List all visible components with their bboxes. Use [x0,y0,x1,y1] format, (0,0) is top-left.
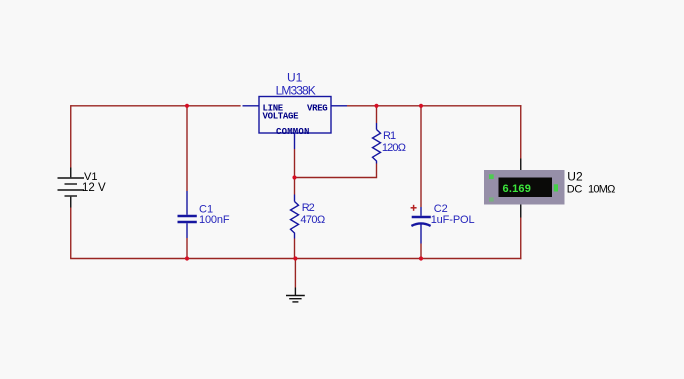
svg-text:U2: U2 [567,170,583,184]
battery V1 [58,168,85,208]
wire U1 COMMON down to adjust node [294,149,296,178]
capacitor C1 [178,191,197,238]
wire C2 top branch [420,106,422,207]
svg-text:VREG: VREG [307,104,327,114]
junction C1 bottom [185,256,189,260]
svg-text:120Ω: 120Ω [382,142,406,154]
wire meter bottom lead (red part) [520,218,522,260]
wire bottom rail [70,258,521,260]
svg-text:470Ω: 470Ω [300,214,325,226]
meter green indicator top-left [489,174,494,179]
svg-text:DC: DC [567,184,583,196]
svg-text:10MΩ: 10MΩ [588,184,615,196]
wire C2 bottom branch [420,244,422,259]
junction R1 top [374,104,378,108]
junction ground node [293,256,297,260]
resistor R2 [291,195,299,239]
wire top rail left (V1 to U1 LINE pin) [71,105,241,107]
svg-text:U1: U1 [287,71,303,85]
junction C2 top [419,104,423,108]
wire ground branch [294,259,296,288]
wire top rail right (U1 VREG to meter drop) [347,105,521,107]
svg-text:VOLTAGE: VOLTAGE [263,112,300,122]
junction C1 top [185,104,189,108]
pin COMMON (bottom) [294,133,296,149]
meter bottom lead (black part) [520,205,522,218]
junction C2 bottom [419,256,423,260]
wire C1 bottom branch [186,238,188,259]
meter body [484,170,565,205]
pin LINE VOLTAGE (left) [243,105,260,107]
wire adjust node down to R2 [294,178,296,195]
meter display [499,178,553,198]
meter green indicator bottom-left [489,197,494,201]
wire left rail upper (top rail down to V1 +) [70,105,72,167]
svg-text:1uF-POL: 1uF-POL [431,214,475,226]
regulator U1 LM338K box [243,97,348,150]
capacitor C2 (polarized) [411,207,430,244]
multimeter U2 [484,159,565,218]
svg-text:LM338K: LM338K [276,84,316,98]
wire R2 bottom branch [294,239,296,259]
resistor R1 [373,123,381,164]
wire left rail lower (V1 - down to bottom rail) [70,208,72,259]
svg-text:12 V: 12 V [82,182,106,194]
wire meter top lead (red part) [520,105,522,158]
ground [286,288,305,302]
wire R1 bottom to adjust node [295,164,377,178]
polarity plus sign of C2 [411,205,417,211]
junction adjust node [292,175,296,179]
svg-text:100nF: 100nF [199,214,230,226]
svg-text:6.169: 6.169 [503,183,532,195]
wire R1 top branch [376,106,378,123]
meter top lead (black part) [520,159,522,171]
svg-text:R2: R2 [302,202,315,214]
wire C1 top branch [186,106,188,191]
svg-text:COMMON: COMMON [276,127,310,137]
svg-text:R1: R1 [383,130,396,142]
pin VREG (right) [331,105,347,107]
meter green indicator right [554,184,558,191]
